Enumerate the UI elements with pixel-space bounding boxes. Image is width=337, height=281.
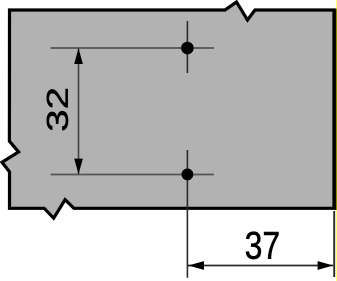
drill hole top <box>181 42 194 55</box>
dimension line 32 (vertical) <box>78 48 80 175</box>
yellow edge artifact strip <box>336 0 337 281</box>
drill hole bottom <box>182 169 194 181</box>
label 37 <box>246 232 279 259</box>
crosshair vertical line through bottom hole / extension line for 37 <box>186 150 188 278</box>
arrowhead down <box>74 159 83 175</box>
label 32 <box>47 89 68 130</box>
arrowhead left <box>188 261 204 270</box>
right border extension under strip <box>335 9 337 211</box>
crosshair horizontal line through top hole (extension line for 32) <box>51 47 215 49</box>
arrowhead right <box>318 261 334 270</box>
arrowhead up <box>74 48 83 64</box>
crosshair vertical line through top hole <box>186 21 188 73</box>
extension line right edge (for 37) <box>333 211 335 277</box>
mounting plate outline (grey plate with break lines) <box>2 2 334 218</box>
dimension line 37 (horizontal) <box>188 265 333 267</box>
crosshair horizontal line through bottom hole (extension line for 32) <box>51 174 215 176</box>
